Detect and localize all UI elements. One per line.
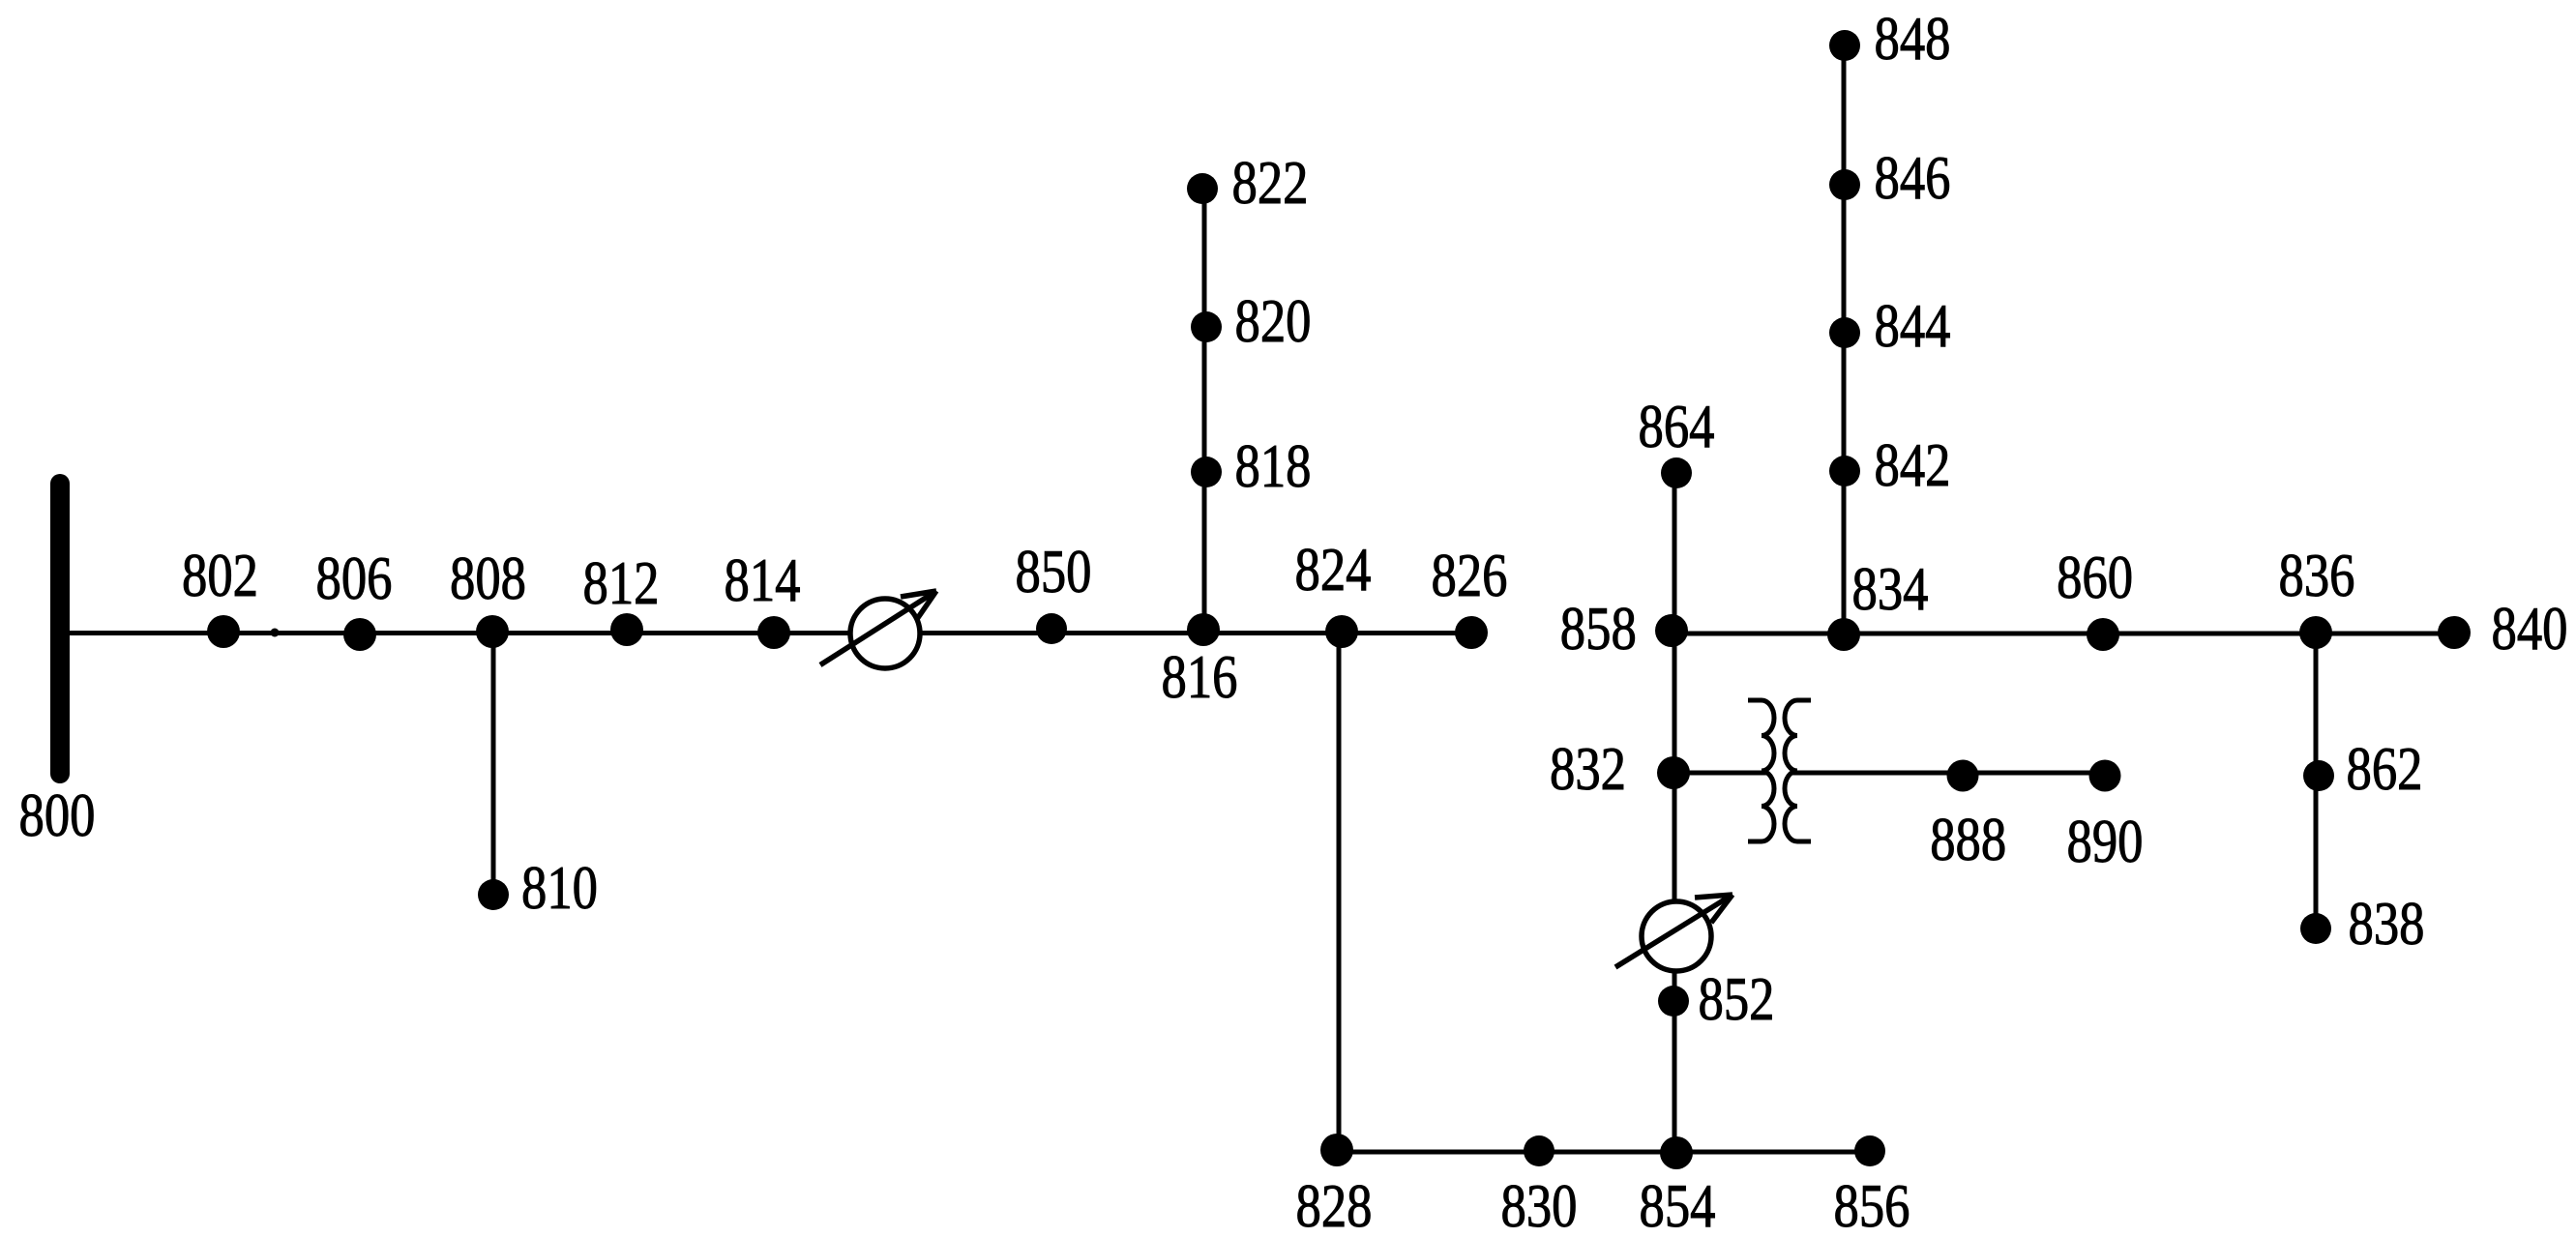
svg-text:816: 816 — [1162, 642, 1238, 711]
node 828 — [1320, 1134, 1353, 1166]
svg-text:824: 824 — [1295, 535, 1372, 604]
node 822 — [1187, 173, 1218, 204]
wire: transformer to 890 — [1791, 771, 2105, 776]
wire: 836 down to 838 — [2314, 633, 2319, 928]
svg-text:846: 846 — [1875, 143, 1951, 212]
stray mark — [271, 629, 280, 637]
node 848 — [1829, 30, 1860, 61]
svg-text:828: 828 — [1296, 1171, 1373, 1238]
svg-text:802: 802 — [182, 541, 258, 609]
svg-text:888: 888 — [1930, 805, 2006, 873]
svg-text:858: 858 — [1560, 594, 1637, 663]
node 862 — [2303, 760, 2334, 791]
svg-text:864: 864 — [1639, 392, 1715, 460]
svg-text:826: 826 — [1432, 541, 1508, 609]
node 890 — [2089, 760, 2121, 792]
regulator 2 arrow — [1615, 895, 1732, 967]
svg-text:836: 836 — [2279, 541, 2355, 609]
svg-text:834: 834 — [1852, 554, 1929, 623]
regulator 1 arrow — [820, 591, 936, 665]
node 812 — [610, 613, 643, 646]
node 850 — [1036, 613, 1067, 644]
node 846 — [1829, 169, 1860, 200]
svg-text:838: 838 — [2349, 889, 2425, 958]
node 816 — [1187, 613, 1220, 646]
wire: main feeder 858 to 840 — [1672, 632, 2454, 636]
svg-text:808: 808 — [450, 544, 526, 612]
svg-text:840: 840 — [2492, 594, 2568, 663]
node 824 — [1325, 615, 1358, 648]
svg-text:820: 820 — [1235, 286, 1312, 355]
node 836 — [2299, 616, 2332, 649]
regulator 2 circle — [1642, 901, 1711, 971]
svg-text:832: 832 — [1550, 734, 1626, 803]
svg-text:822: 822 — [1232, 148, 1309, 217]
node 838 — [2300, 913, 2331, 944]
node 818 — [1191, 457, 1222, 487]
node 854 — [1660, 1136, 1693, 1169]
wire: bottom feeder 828 to 856 — [1337, 1150, 1870, 1155]
regulator 1 circle — [850, 599, 920, 668]
wire: 832 to transformer — [1673, 771, 1766, 776]
node 820 — [1191, 311, 1222, 342]
svg-text:862: 862 — [2347, 734, 2423, 803]
node 856 — [1854, 1135, 1885, 1166]
node 832 — [1657, 756, 1690, 789]
svg-text:814: 814 — [725, 545, 801, 614]
node 814 — [757, 616, 790, 649]
wire: 808 down to 810 — [491, 633, 496, 895]
node 852 — [1658, 986, 1689, 1017]
svg-text:890: 890 — [2067, 807, 2144, 875]
svg-text:842: 842 — [1875, 430, 1951, 499]
node 826 — [1455, 616, 1488, 649]
node 834 — [1827, 618, 1860, 651]
svg-text:800: 800 — [19, 781, 96, 849]
node 860 — [2087, 618, 2119, 651]
bus 800 vertical bar — [50, 484, 70, 774]
node 864 — [1661, 457, 1692, 488]
svg-text:844: 844 — [1875, 291, 1951, 360]
svg-text:852: 852 — [1699, 964, 1775, 1033]
node 806 — [343, 618, 376, 651]
wire: 848 down to 834 — [1842, 45, 1847, 634]
svg-text:810: 810 — [521, 853, 598, 922]
svg-text:856: 856 — [1834, 1171, 1910, 1238]
svg-text:860: 860 — [2057, 543, 2133, 611]
node 858 — [1655, 614, 1688, 647]
wire: main feeder 800 to 826 — [60, 631, 1471, 635]
svg-text:818: 818 — [1235, 431, 1312, 500]
wire: 864 down through 858, 832, 852 to 854 — [1673, 473, 1677, 1152]
svg-text:850: 850 — [1016, 537, 1092, 605]
node 808 — [476, 615, 509, 648]
node 842 — [1829, 456, 1860, 486]
svg-text:830: 830 — [1501, 1171, 1578, 1238]
node 844 — [1829, 317, 1860, 348]
node 840 — [2438, 616, 2471, 649]
wire: 816 up to 822 — [1202, 189, 1207, 632]
svg-text:848: 848 — [1875, 4, 1951, 73]
wire: 824 down to 828 — [1337, 632, 1342, 1152]
svg-text:812: 812 — [583, 548, 660, 617]
transformer XFM-1 primary winding — [1748, 700, 1774, 841]
node 830 — [1524, 1135, 1554, 1166]
transformer XFM-1 secondary winding — [1785, 700, 1811, 841]
svg-text:854: 854 — [1640, 1171, 1716, 1238]
node 888 — [1947, 760, 1979, 792]
svg-text:806: 806 — [316, 544, 393, 612]
node 810 — [478, 879, 509, 910]
node 802 — [207, 615, 240, 648]
